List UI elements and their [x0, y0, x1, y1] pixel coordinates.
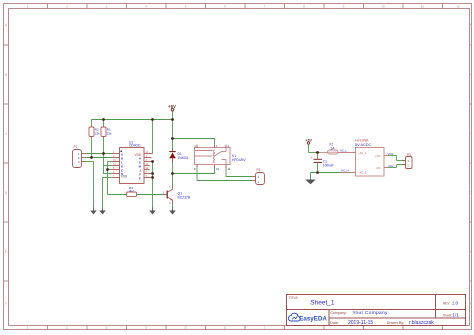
svg-text:1000uF: 1000uF [323, 164, 334, 168]
svg-text:3: 3 [169, 203, 171, 205]
svg-text:REV:: REV: [443, 302, 450, 306]
svg-text:P1: P1 [74, 145, 78, 149]
svg-text:4: 4 [145, 326, 147, 330]
svg-text:1: 1 [258, 175, 260, 179]
svg-text:7: 7 [264, 326, 266, 330]
svg-text:12: 12 [456, 4, 460, 8]
svg-text:HFD4/5V: HFD4/5V [232, 158, 246, 162]
svg-text:Company:: Company: [330, 311, 346, 315]
svg-text:5: 5 [185, 326, 187, 330]
svg-text:Date:: Date: [330, 321, 339, 325]
svg-text:11: 11 [421, 4, 425, 8]
svg-text:D: D [469, 191, 472, 195]
svg-text:5V ACDC: 5V ACDC [355, 143, 372, 147]
svg-text:6: 6 [224, 4, 226, 8]
svg-text:11: 11 [228, 167, 231, 171]
svg-text:A: A [470, 23, 473, 27]
svg-text:5: 5 [185, 4, 187, 8]
svg-text:-VO: -VO [376, 166, 381, 170]
svg-text:E: E [470, 250, 472, 254]
svg-text:E: E [5, 250, 7, 254]
svg-text:9: 9 [343, 4, 345, 8]
svg-text:3: 3 [106, 4, 108, 8]
svg-text:P3: P3 [407, 153, 411, 157]
svg-text:4k7: 4k7 [129, 189, 134, 193]
svg-text:r.blaszczak: r.blaszczak [409, 320, 434, 326]
svg-text:VO2: VO2 [388, 164, 394, 168]
svg-text:4: 4 [145, 4, 147, 8]
svg-text:AC_N: AC_N [341, 169, 348, 173]
svg-text:2: 2 [66, 326, 68, 330]
svg-text:22k: 22k [107, 132, 112, 136]
svg-text:B: B [5, 73, 7, 77]
svg-text:6: 6 [224, 326, 226, 330]
svg-text:7: 7 [264, 4, 266, 8]
svg-text:1.0: 1.0 [452, 301, 459, 306]
svg-text:+: + [311, 156, 313, 160]
svg-text:EasyEDA: EasyEDA [299, 316, 327, 323]
svg-text:E: E [139, 176, 141, 180]
svg-text:C: C [469, 132, 472, 136]
svg-text:3: 3 [106, 326, 108, 330]
svg-text:2019-11-15: 2019-11-15 [348, 320, 373, 326]
svg-text:VO1: VO1 [388, 152, 394, 156]
svg-text:10: 10 [381, 4, 385, 8]
svg-text:AC_1: AC_1 [360, 151, 367, 155]
svg-text:C: C [5, 132, 8, 136]
svg-text:8: 8 [303, 4, 305, 8]
svg-text:16: 16 [216, 167, 220, 171]
svg-text:A: A [5, 23, 8, 27]
svg-text:2: 2 [66, 4, 68, 8]
svg-text:8: 8 [194, 167, 196, 171]
svg-text:Sheet:: Sheet: [443, 313, 452, 317]
svg-text:P2: P2 [257, 168, 261, 172]
svg-text:1: 1 [27, 326, 29, 330]
svg-text:F: F [470, 302, 472, 306]
svg-text:TITLE:: TITLE: [289, 296, 299, 300]
svg-text:2: 2 [258, 180, 260, 184]
svg-text:Drawn By:: Drawn By: [387, 321, 405, 325]
svg-text:1: 1 [27, 4, 29, 8]
svg-text:AC_L: AC_L [340, 149, 347, 153]
svg-text:22k: 22k [95, 132, 100, 136]
svg-text:2: 2 [407, 164, 409, 168]
svg-text:F: F [5, 302, 7, 306]
svg-text:1/1: 1/1 [452, 312, 459, 317]
svg-text:D: D [5, 191, 8, 195]
svg-text:1N4001: 1N4001 [178, 156, 189, 160]
svg-text:CD4011: CD4011 [129, 144, 141, 148]
svg-text:VSS: VSS [121, 174, 127, 178]
svg-text:AC_2: AC_2 [360, 171, 367, 175]
svg-text:3: 3 [78, 160, 80, 164]
svg-text:1: 1 [169, 187, 171, 189]
svg-text:Your Company: Your Company [353, 310, 388, 316]
svg-text:Sheet_1: Sheet_1 [310, 299, 335, 306]
svg-text:B: B [470, 73, 472, 77]
svg-text:+VO: +VO [375, 154, 380, 158]
svg-text:1: 1 [407, 159, 409, 163]
svg-text:BC237B: BC237B [178, 196, 191, 200]
